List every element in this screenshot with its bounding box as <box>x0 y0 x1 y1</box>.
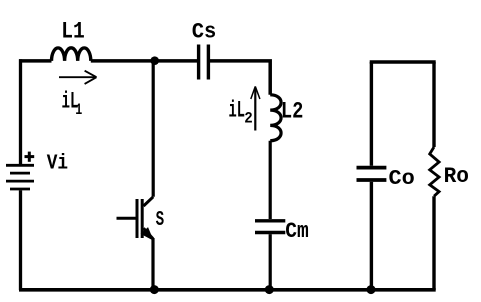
wire Ro to bottom rail <box>432 196 435 290</box>
resistor Ro <box>430 147 439 196</box>
svg-text:Ro: Ro <box>444 164 469 189</box>
label iL2 <box>229 98 253 128</box>
current arrow iL2 <box>251 86 260 130</box>
wire top rail mid <box>91 59 197 63</box>
wire L2 to Cm <box>269 141 272 219</box>
wire Cm to bottom rail <box>269 234 272 290</box>
junction dot bottom right <box>367 285 376 294</box>
wire right loop top rail <box>370 60 436 64</box>
wire right loop right side top <box>432 62 435 147</box>
transistor S <box>117 197 154 240</box>
svg-text:S: S <box>156 209 165 232</box>
bottom rail <box>19 288 436 292</box>
svg-text:Co: Co <box>389 168 415 191</box>
junction dot bottom left <box>150 285 159 294</box>
wire top rail right of Cs to corner down to L2 <box>210 61 270 95</box>
capacitor Cs <box>199 45 209 80</box>
svg-text:2: 2 <box>244 109 253 127</box>
wire emitter to bottom rail <box>151 238 154 290</box>
label iL1 <box>62 89 83 120</box>
junction dot bottom mid <box>265 285 274 294</box>
inductor L1 <box>52 48 91 61</box>
wire right loop left side top <box>370 62 373 166</box>
svg-text:iL: iL <box>229 98 246 124</box>
svg-text:L1: L1 <box>61 19 85 45</box>
svg-text:L2: L2 <box>281 98 304 124</box>
svg-text:Vi: Vi <box>47 153 68 176</box>
svg-text:Cs: Cs <box>192 20 217 45</box>
inductor L2 <box>270 95 281 141</box>
node A junction dot <box>150 56 159 65</box>
current arrow iL1 <box>59 71 97 84</box>
capacitor Cm <box>255 221 285 233</box>
wire top rail left <box>19 59 52 63</box>
svg-text:1: 1 <box>75 101 82 119</box>
wire Co to bottom rail <box>370 182 373 290</box>
wire battery to bottom rail <box>19 190 22 290</box>
wire left branch top <box>19 59 22 164</box>
wire collector branch <box>152 61 155 197</box>
plus sign <box>25 152 35 162</box>
battery Vi <box>6 165 34 189</box>
svg-text:Cm: Cm <box>285 219 309 244</box>
capacitor Co <box>357 168 387 180</box>
